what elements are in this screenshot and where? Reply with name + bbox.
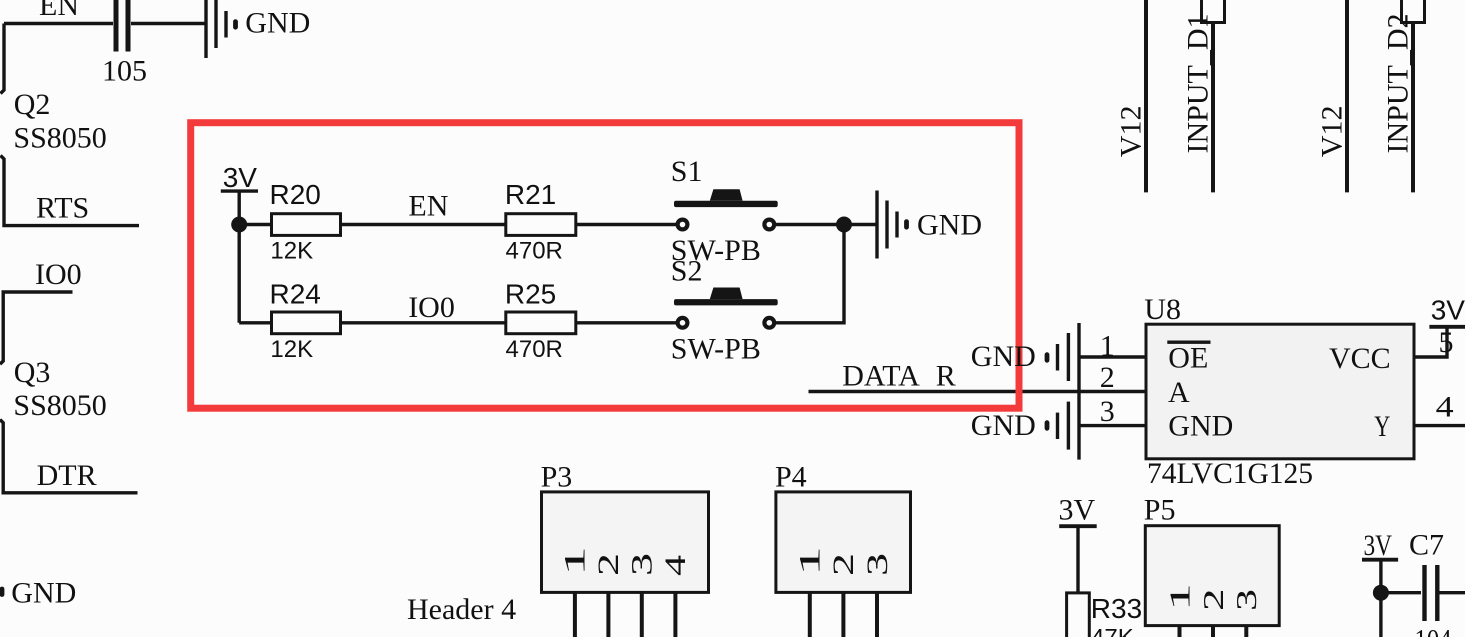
svg-text:RTS: RTS bbox=[36, 192, 89, 225]
svg-text:V12: V12 bbox=[1115, 106, 1148, 158]
svg-text:P3: P3 bbox=[541, 461, 573, 494]
svg-text:SS8050: SS8050 bbox=[13, 389, 106, 422]
svg-text:4: 4 bbox=[659, 555, 692, 576]
svg-text:IO0: IO0 bbox=[35, 258, 82, 291]
svg-text:S1: S1 bbox=[671, 155, 703, 188]
svg-text:DATA: DATA bbox=[842, 360, 920, 393]
svg-text:Header 4: Header 4 bbox=[407, 593, 516, 626]
svg-text:SS8050: SS8050 bbox=[13, 122, 106, 155]
svg-text:DTR: DTR bbox=[37, 459, 97, 492]
svg-text:1: 1 bbox=[1165, 583, 1197, 611]
svg-text:Y: Y bbox=[1374, 410, 1390, 443]
svg-text:P4: P4 bbox=[775, 461, 807, 494]
svg-text:Q3: Q3 bbox=[14, 356, 51, 389]
svg-text:1: 1 bbox=[1100, 329, 1115, 362]
svg-text:470R: 470R bbox=[506, 336, 563, 363]
svg-text:3V: 3V bbox=[223, 162, 258, 193]
svg-text:IO0: IO0 bbox=[408, 291, 455, 324]
svg-text:R: R bbox=[936, 360, 956, 393]
svg-text:EN: EN bbox=[408, 190, 448, 223]
svg-text:47K: 47K bbox=[1091, 624, 1134, 637]
svg-text:3V: 3V bbox=[1431, 295, 1465, 326]
svg-text:2: 2 bbox=[1100, 361, 1115, 394]
svg-text:3: 3 bbox=[861, 553, 894, 576]
svg-text:3V: 3V bbox=[1059, 494, 1096, 527]
svg-text:C7: C7 bbox=[1409, 529, 1444, 562]
svg-text:R20: R20 bbox=[270, 179, 321, 210]
svg-text:EN: EN bbox=[39, 0, 79, 22]
svg-text:A: A bbox=[1168, 376, 1190, 409]
svg-text:2: 2 bbox=[592, 553, 625, 576]
svg-text:GND: GND bbox=[245, 7, 310, 40]
svg-text:74LVC1G125: 74LVC1G125 bbox=[1147, 457, 1313, 490]
svg-text:V12: V12 bbox=[1316, 106, 1349, 158]
svg-text:470R: 470R bbox=[506, 237, 563, 264]
svg-text:Q2: Q2 bbox=[14, 88, 51, 121]
svg-text:S2: S2 bbox=[671, 255, 703, 288]
svg-text:R33: R33 bbox=[1091, 593, 1142, 624]
svg-text:GND: GND bbox=[971, 340, 1036, 373]
svg-text:SW-PB: SW-PB bbox=[671, 332, 761, 365]
svg-text:VCC: VCC bbox=[1329, 342, 1391, 375]
svg-text:12K: 12K bbox=[270, 237, 313, 264]
svg-text:R25: R25 bbox=[505, 278, 556, 309]
svg-text:3: 3 bbox=[1100, 395, 1115, 428]
svg-text:U8: U8 bbox=[1144, 293, 1181, 326]
svg-text:3: 3 bbox=[625, 553, 658, 576]
svg-text:GND: GND bbox=[971, 409, 1036, 442]
svg-text:1: 1 bbox=[558, 546, 591, 576]
svg-text:P5: P5 bbox=[1144, 494, 1176, 527]
svg-text:R21: R21 bbox=[505, 179, 556, 210]
svg-text:3V: 3V bbox=[1364, 529, 1393, 562]
svg-text:INPUT_D2: INPUT_D2 bbox=[1382, 14, 1415, 154]
svg-text:R24: R24 bbox=[270, 278, 321, 309]
svg-text:OE: OE bbox=[1168, 342, 1208, 375]
svg-text:1: 1 bbox=[793, 546, 826, 576]
svg-text:GND: GND bbox=[1168, 409, 1233, 442]
svg-text:GND: GND bbox=[11, 577, 76, 610]
svg-text:104: 104 bbox=[1415, 624, 1452, 637]
svg-text:105: 105 bbox=[102, 54, 147, 87]
svg-text:GND: GND bbox=[917, 209, 982, 242]
svg-text:4: 4 bbox=[1436, 391, 1454, 424]
svg-text:12K: 12K bbox=[270, 336, 313, 363]
svg-text:5: 5 bbox=[1439, 326, 1454, 359]
svg-text:3: 3 bbox=[1231, 589, 1263, 611]
svg-text:INPUT_D1: INPUT_D1 bbox=[1182, 14, 1215, 154]
svg-text:2: 2 bbox=[827, 553, 860, 576]
svg-text:2: 2 bbox=[1198, 589, 1230, 612]
